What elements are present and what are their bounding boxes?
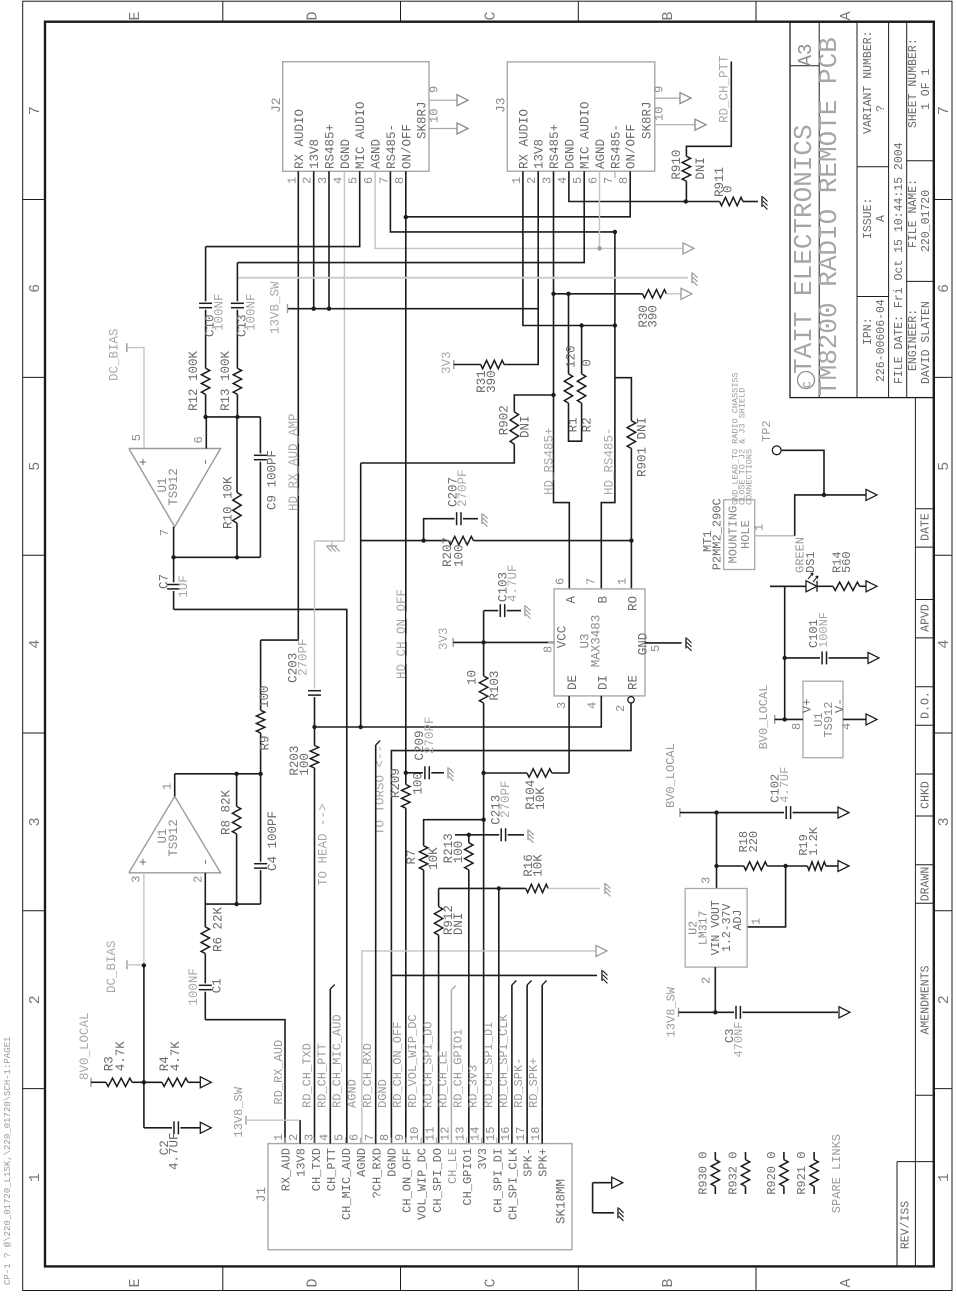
svg-text:100: 100 [412,772,426,795]
node junction R213 top [467,833,471,837]
node junction U2 pin2 [713,1010,717,1014]
svg-text:16: 16 [499,1127,513,1141]
svg-text:MIC AUDIO: MIC AUDIO [354,101,368,169]
svg-text:-: - [198,458,213,466]
resistor R207 100 [361,536,632,567]
svg-text:BV0_LOCAL: BV0_LOCAL [757,685,771,750]
wire MIC AUDIO J3 pin5 [237,171,584,262]
svg-text:R10 10K: R10 10K [222,476,236,529]
svg-text:R902: R902 [498,405,512,435]
svg-text:3: 3 [555,702,569,709]
svg-text:7: 7 [363,1134,377,1141]
wire J1 pin18 SPK+ [542,981,547,1144]
svg-text:10: 10 [428,109,442,123]
svg-text:5: 5 [649,645,663,652]
svg-text:3: 3 [130,876,144,883]
wire J1 pin16 SPI_CLK [512,981,517,1144]
svg-text:226-00606-04: 226-00606-04 [875,299,888,382]
wire DC_BIAS to R3 R4 [143,965,145,1082]
node junction R104 3V3 [481,771,485,775]
resistor R14 560 [817,551,866,590]
net label BV0_LOCAL 2 [664,743,680,817]
arrow R19 [838,861,849,872]
svg-text:E: E [127,1278,144,1287]
svg-text:4.7UF: 4.7UF [506,564,520,602]
spare bracket [593,1183,614,1213]
svg-text:SPK+: SPK+ [537,1148,551,1177]
svg-text:DI: DI [596,675,610,690]
svg-text:C: C [482,11,499,20]
wire 3V3 vertical to J1 pin14 [483,611,485,1144]
svg-text:RD_CH_TXD: RD_CH_TXD [300,1043,314,1108]
wire R16 run [439,887,526,889]
resistor R18 220 [717,831,768,870]
wire R910 bottom [685,181,687,201]
svg-text:R103: R103 [488,671,502,701]
wire RD_CH_PTT [686,62,731,157]
capacitor C102 4.7UF [769,767,839,819]
resistor R4 4.7K [144,1041,200,1087]
resistor R30 390 [637,290,666,328]
wire MT1 to arrow [795,495,866,536]
svg-text:RD_CH_ON_OFF: RD_CH_ON_OFF [391,1022,405,1108]
svg-text:2: 2 [301,177,315,184]
svg-text:7: 7 [936,106,953,115]
net label DC_BIAS lower [105,940,144,993]
wire RS485- J2 pin7 [390,171,615,232]
svg-text:RD_RX_AUD: RD_RX_AUD [272,1040,286,1105]
svg-text:0: 0 [581,359,595,367]
svg-text:4.7K: 4.7K [114,1041,128,1072]
node junction DI mid [359,725,363,729]
wire AGND J3 pin6 gray [599,171,601,248]
capacitor C203 270PF [287,638,321,727]
svg-text:CH_GPIO1: CH_GPIO1 [461,1148,475,1206]
node junction BV0 [714,810,718,814]
svg-text:R920 0: R920 0 [765,1152,779,1195]
wire R30 run [554,293,643,295]
svg-text:D: D [305,11,322,20]
svg-text:1.2K: 1.2K [807,826,821,856]
svg-text:220: 220 [747,831,761,853]
svg-text:3: 3 [936,817,953,826]
svg-text:8: 8 [378,1134,392,1141]
node junction C101 [783,656,787,660]
svg-text:DC_BIAS: DC_BIAS [108,328,122,381]
wire 13V8 J2 pin3 [328,171,330,308]
svg-text:CHKD: CHKD [920,781,933,809]
ground C213 [528,829,534,843]
wire AGND J2 pin6 gray [375,171,683,248]
wire AGND J1 pin6 gray [362,951,596,1144]
net label BV0_LOCAL U1 [757,685,803,750]
svg-text:100: 100 [452,544,466,567]
wire BV0 run [680,812,784,814]
wire 13V8 J3 pin2 [288,171,539,309]
svg-text:3: 3 [316,177,330,184]
svg-text:RX AUDIO: RX AUDIO [293,109,307,169]
node junction RS485+ R30 run [551,292,555,296]
svg-text:SK18MM: SK18MM [555,1179,569,1224]
wire R902 bottom run [361,444,515,463]
net label RD_CH_PTT [718,55,732,123]
pin number 5 U3 [649,645,663,652]
svg-text:TM8200 RADIO REMOTE PCB: TM8200 RADIO REMOTE PCB [814,37,844,396]
node junction R12 [203,415,207,419]
svg-text:6: 6 [348,1134,362,1141]
svg-text:R2: R2 [581,417,595,432]
net label HD_CH_ON_OFF [395,589,409,679]
svg-text:13VB_SW: 13VB_SW [269,281,283,334]
svg-text:DAVID SLATEN: DAVID SLATEN [920,301,933,384]
svg-text:P2MM2_290C: P2MM2_290C [711,498,725,570]
svg-text:12: 12 [438,1127,452,1141]
net label HD_RS485+ [543,427,557,495]
svg-text:DGND: DGND [339,139,353,169]
svg-text:C: C [482,1278,499,1287]
svg-text:RD_CH_GPIO1: RD_CH_GPIO1 [452,1029,466,1108]
label SPARE LINKS [830,1134,844,1213]
svg-text:9: 9 [393,1134,407,1141]
node junction R8 bottom [234,902,238,906]
svg-text:DNI: DNI [519,415,533,438]
node junction 13V8 pin2 [312,307,316,311]
svg-text:R209: R209 [389,768,403,798]
svg-text:CH_SPI_DO: CH_SPI_DO [431,1148,445,1213]
svg-text:ON/OFF: ON/OFF [400,124,414,169]
svg-text:TS912: TS912 [167,468,181,506]
net label 13V8_SW J1 [232,1086,300,1143]
wire C7 to J1 pin5 [174,609,347,1143]
svg-text:AGND: AGND [355,1148,369,1177]
gray arrow AGND [683,243,694,254]
svg-text:6: 6 [553,578,567,585]
arrow C102 [838,807,849,818]
svg-text:5: 5 [333,1134,347,1141]
svg-text:+: + [136,458,151,466]
node junction TP2 [822,493,826,497]
wire R2 top [581,326,583,374]
node junction VCC 3V3 [481,640,485,644]
resistor R902 DNI [498,405,533,444]
svg-text:11: 11 [423,1127,437,1141]
arrow U1 pin4 [866,714,877,725]
wire op1b output run [175,774,261,797]
svg-text:SPARE LINKS: SPARE LINKS [830,1134,844,1213]
connector J3 SK8RJ [494,62,706,184]
svg-text:RS485+: RS485+ [324,124,338,169]
svg-text:270PF: 270PF [297,638,311,676]
wire RX AUDIO J3 pin1 [523,171,615,325]
svg-text:10K: 10K [532,854,546,877]
wire R901 top [615,378,632,421]
svg-text:A: A [838,1278,855,1287]
svg-text:AGND: AGND [370,139,384,169]
op-amp U1a TS912 [129,434,221,536]
wire op1b pin3 DC_BIAS [143,873,145,966]
connector J2 SK8RJ [269,62,468,184]
svg-text:AMENDMENTS: AMENDMENTS [920,965,933,1034]
svg-text:3: 3 [302,1134,316,1141]
svg-text:APVD: APVD [920,604,933,632]
node junction R18 run [714,864,718,868]
wire DI run [315,696,602,727]
net label 3V3 R31 [440,351,454,374]
svg-text:ISSUE:: ISSUE: [862,198,875,239]
svg-text:100NF: 100NF [817,612,831,648]
svg-text:RX AUDIO: RX AUDIO [517,109,531,169]
wire U3 pin8 VCC stub [548,641,554,643]
svg-text:9: 9 [653,86,667,93]
svg-text:13: 13 [454,1127,468,1141]
wire BV0 vertical [784,586,786,719]
svg-text:1: 1 [753,524,767,531]
IC U2 LM317 [685,877,763,984]
svg-text:TP2: TP2 [760,420,774,442]
node junction SPI_DI [497,886,501,890]
wire R16 to ground gray [548,887,600,889]
resistor R12 100K [187,350,210,416]
svg-text:17: 17 [514,1127,528,1141]
arrow chassis [866,489,877,500]
svg-text:TS912: TS912 [822,701,836,737]
resistor R19 1.2K [797,826,838,870]
svg-text:HOLE: HOLE [739,520,753,549]
svg-text:LM317: LM317 [698,911,711,946]
svg-text:R7: R7 [405,849,419,864]
svg-text:7: 7 [377,177,391,184]
ground C103 [525,605,531,619]
svg-text:HD_RX_AUD_AMP: HD_RX_AUD_AMP [287,413,301,511]
svg-text:560: 560 [840,551,854,573]
svg-text:8: 8 [393,177,407,184]
svg-text:10: 10 [653,107,667,121]
svg-text:RD_CH_PTT: RD_CH_PTT [718,55,732,123]
resistor R103 10 [466,670,502,703]
net label HD_RX_AUD_AMP [287,413,301,511]
IC U1 power TS912 [790,681,854,758]
node junction R3 R4 [142,1080,146,1084]
svg-text:4: 4 [27,640,44,649]
svg-text:RX_AUD: RX_AUD [280,1148,294,1191]
svg-text:1: 1 [272,1134,286,1141]
net label 8V0_LOCAL [78,1012,92,1086]
svg-text:470NF: 470NF [732,1021,746,1057]
capacitor C101 100NF [785,612,868,664]
net label RD_RX_AUD [272,1040,286,1105]
svg-text:RD_SPK-: RD_SPK- [512,1058,526,1108]
svg-text:R930 0: R930 0 [696,1152,710,1195]
node junction C203 R203 [312,725,316,729]
wire U2 pin2 [714,967,716,1012]
svg-text:4: 4 [556,177,570,184]
svg-text:RD_VOL_WIP_DC: RD_VOL_WIP_DC [406,1014,420,1108]
mounting hole MT1 [701,498,795,570]
LED DS1 GREEN [770,537,818,592]
svg-text:2: 2 [525,177,539,184]
IC U3 MAX3483 [541,578,650,712]
ground spare [618,1207,624,1221]
svg-text:10K: 10K [534,787,548,810]
capacitor C103 4.7UF [484,564,521,617]
net label 13V8_SW U2 [664,986,715,1037]
svg-text:RD_CH_SPI_DI: RD_CH_SPI_DI [482,1022,496,1108]
svg-text:VOL_WIP_DC: VOL_WIP_DC [416,1148,430,1220]
node junction R13 [235,415,239,419]
capacitor C7 1UF [157,557,191,609]
svg-text:4.7UF: 4.7UF [167,1132,181,1170]
spare link R920 0 [765,1152,788,1195]
spare link R921 0 [795,1152,818,1195]
resistor R9 100 [256,640,298,774]
svg-text:R6 22K: R6 22K [211,906,225,952]
svg-text:8: 8 [617,177,631,184]
wire DE run [484,696,569,773]
svg-text:15: 15 [484,1127,498,1141]
svg-text:MIC AUDIO: MIC AUDIO [579,101,593,169]
wire ADJ [747,866,786,927]
wire U3 pin5 GND [645,642,682,644]
wire MIC AUDIO J2 pin5 [206,171,360,246]
wire R18 R19 [767,865,807,867]
svg-text:HD_CH_ON_OFF: HD_CH_ON_OFF [395,589,409,679]
test point TP2 [760,420,824,495]
svg-text:DE: DE [566,675,580,690]
svg-text:220_01720: 220_01720 [920,190,933,252]
svg-text:R921 0: R921 0 [795,1152,809,1195]
svg-text:2: 2 [192,876,206,883]
wire op1 pin5 DC_BIAS gray [127,348,144,449]
wire ON/OFF J3 pin8 [406,171,630,217]
svg-text:1: 1 [615,578,629,585]
wire RS485- J3 pin7 to U3 B [601,232,615,589]
svg-text:MAX3483: MAX3483 [590,615,604,668]
wire J1 pin12 CH_LE [451,986,456,1144]
svg-text:AGND: AGND [594,139,608,169]
svg-text:100NF: 100NF [213,293,227,331]
node junction RS485- at J3 pin7 [613,230,617,234]
wire R203 to J1 pin3 TO HEAD [314,727,316,1144]
svg-text:A: A [838,11,855,20]
ground R911 [762,196,768,210]
svg-text:R932 0: R932 0 [727,1152,741,1195]
node junction U1 V+ [783,717,787,721]
svg-text:4.7K: 4.7K [169,1041,183,1072]
node junction RO-R207 [629,538,633,542]
svg-text:VARIANT NUMBER:: VARIANT NUMBER: [862,30,875,134]
resistor R10 10K [222,417,242,557]
svg-text:D: D [305,1278,322,1287]
wire op1 inverting node [206,416,261,418]
svg-text:2: 2 [614,705,628,712]
node junction R19 ADJ [783,864,787,868]
svg-text:120: 120 [565,345,579,368]
svg-text:100: 100 [452,841,466,864]
svg-text:390: 390 [485,370,499,393]
resistor R203 100 [288,746,319,776]
svg-text:J3: J3 [494,97,509,113]
capacitor C2 4.7UF [144,1082,200,1170]
node junction C209 tap [404,771,408,775]
svg-text:2: 2 [936,995,953,1004]
svg-text:RO: RO [626,596,640,611]
svg-text:6: 6 [362,177,376,184]
resistor R104 10K [524,769,552,810]
ground DGND run [602,970,608,984]
svg-text:C7: C7 [157,574,171,589]
svg-text:7: 7 [158,529,172,536]
net label TO TORSO [373,745,387,835]
svg-text:3V3: 3V3 [440,351,454,374]
wire R902 top [514,395,553,412]
svg-text:IPN:: IPN: [862,317,875,345]
resistor R6 22K [201,904,225,954]
svg-text:10K: 10K [427,847,441,870]
svg-text:1 OF 1: 1 OF 1 [920,68,933,110]
net label TO HEAD [316,803,330,886]
svg-text:B: B [596,596,610,604]
svg-text:DGND: DGND [563,139,577,169]
svg-text:CH_MIC_AUD: CH_MIC_AUD [340,1148,354,1220]
svg-text:3V3: 3V3 [437,627,451,650]
svg-text:ENGINEER:: ENGINEER: [907,309,920,371]
resistor R910 DNI [670,150,708,182]
wire R911 to ground [743,201,758,203]
resistor R3 4.7K [91,1041,144,1087]
node junction 13V8 pin3 [327,307,331,311]
svg-text:18: 18 [529,1127,543,1141]
node junction at R2 top [579,323,583,327]
wire BV0 to R18 run [716,813,718,889]
svg-text:-: - [198,858,213,866]
svg-text:A: A [875,215,888,222]
svg-text:13V8: 13V8 [295,1148,309,1177]
arrow C101 [868,652,879,663]
svg-text:6: 6 [587,177,601,184]
svg-text:DATE: DATE [920,513,933,541]
svg-text:J1: J1 [254,1187,269,1203]
svg-text:8: 8 [790,723,804,730]
net label 13VB_SW [269,281,288,334]
svg-text:HD_RS485-: HD_RS485- [603,427,617,495]
resistor R8 82K [219,774,241,904]
wire C213 run [455,834,499,836]
svg-text:CH_PTT: CH_PTT [325,1148,339,1191]
capacitor C207 270PF [424,469,478,540]
wire 13V8 J2 pin2 [313,171,315,308]
svg-text:RD_CH_LE: RD_CH_LE [436,1050,450,1108]
svg-text:5: 5 [27,462,44,471]
wire SPI_DI J1 pin15 [498,888,500,1143]
svg-text:270PF: 270PF [423,716,437,754]
wire R1 R2 bottoms [569,403,582,441]
ground DGND gray [326,541,340,552]
svg-text:3: 3 [699,877,713,884]
node junction ON/OFF [404,215,408,219]
svg-text:100NF: 100NF [187,968,201,1006]
svg-text:270PF: 270PF [456,469,470,507]
node junction at pin7 line [613,323,617,327]
wire DGND J3 pin4 [569,171,686,201]
wire op1b inverting run [205,873,260,904]
svg-text:RD_CH_RXD: RD_CH_RXD [361,1043,375,1108]
svg-text:3V3: 3V3 [476,1148,490,1170]
svg-text:RD_CH_SPI_DO: RD_CH_SPI_DO [421,1022,435,1108]
svg-text:4: 4 [331,177,345,184]
svg-text:R901 DNI: R901 DNI [636,417,650,477]
resistor R213 100 [442,833,473,1143]
resistor R31 390 [454,360,504,393]
